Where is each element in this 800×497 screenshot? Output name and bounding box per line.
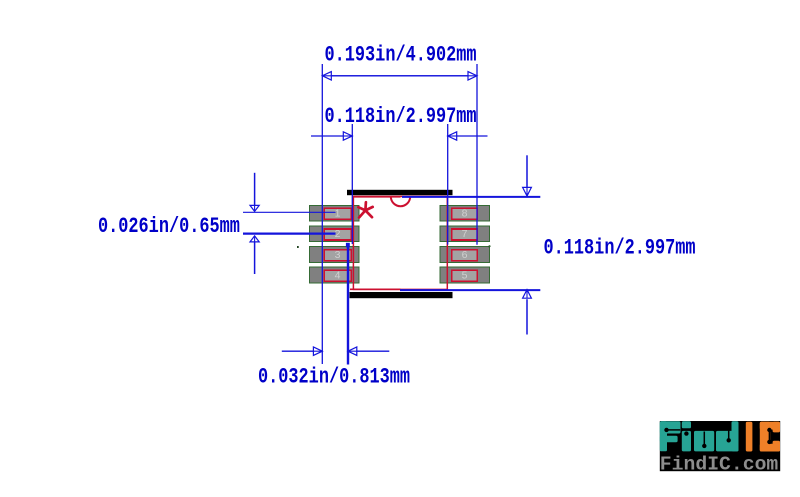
svg-text:0.032in/0.813mm: 0.032in/0.813mm — [258, 363, 410, 389]
svg-text:0.193in/4.902mm: 0.193in/4.902mm — [325, 41, 477, 67]
svg-text:8: 8 — [462, 208, 468, 220]
svg-text:0.118in/2.997mm: 0.118in/2.997mm — [544, 234, 696, 260]
svg-text:7: 7 — [462, 228, 468, 240]
svg-text:3: 3 — [335, 249, 341, 261]
svg-text:5: 5 — [462, 269, 468, 281]
svg-text:1: 1 — [335, 208, 341, 220]
svg-text:FindIC.com: FindIC.com — [660, 454, 779, 476]
svg-text:4: 4 — [335, 269, 341, 281]
svg-text:0.026in/0.65mm: 0.026in/0.65mm — [98, 213, 240, 239]
svg-text:6: 6 — [462, 249, 468, 261]
svg-text:0.118in/2.997mm: 0.118in/2.997mm — [325, 103, 477, 129]
